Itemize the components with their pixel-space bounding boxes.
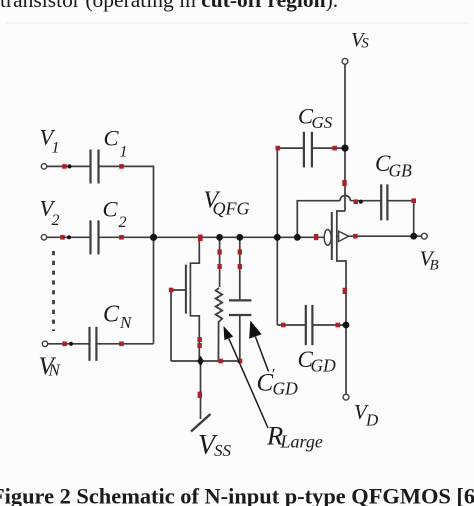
svg-text:2: 2 [119,214,127,231]
svg-text:C: C [103,302,120,328]
svg-text:QFG: QFG [213,199,250,219]
svg-text:C: C [104,126,120,151]
svg-text:SS: SS [214,441,232,460]
svg-text:GB: GB [389,161,413,181]
svg-text:1: 1 [52,140,60,157]
svg-text:GS: GS [312,113,333,132]
svg-text:N: N [119,313,133,332]
svg-text:S: S [362,36,370,52]
svg-text:GD: GD [273,379,299,399]
svg-text:B: B [430,258,439,274]
svg-text:Figure 2 Schematic of N-input: Figure 2 Schematic of N-input p-type QFG… [0,483,474,506]
svg-text:transistor (operating in cut-o: transistor (operating in cut-off region)… [0,0,338,12]
svg-text:2: 2 [52,212,60,229]
svg-text:C: C [103,197,119,222]
svg-text:N: N [48,361,62,380]
svg-text:Large: Large [280,432,323,452]
svg-text:D: D [365,411,379,430]
svg-text:1: 1 [120,144,128,161]
svg-text:GD: GD [311,356,337,376]
